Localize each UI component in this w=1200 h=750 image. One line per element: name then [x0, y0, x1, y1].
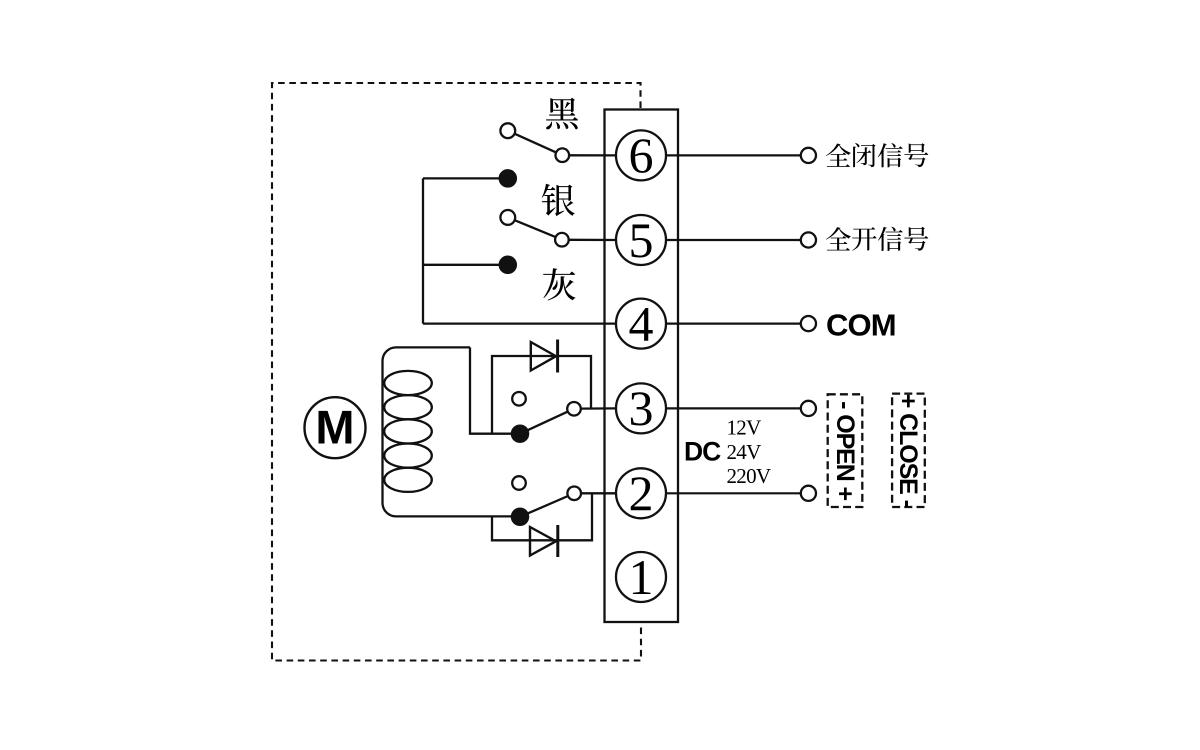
svg-text:+ CLOSE -: + CLOSE - — [894, 394, 922, 508]
wire terminal 4 to external point — [666, 323, 801, 325]
switch S2 lever — [527, 496, 568, 514]
junction dot node (gray common) — [500, 257, 516, 273]
coil turn 4 — [384, 444, 432, 468]
external terminal point for 2 — [801, 486, 816, 501]
svg-text:220V: 220V — [727, 464, 771, 488]
limit switch S5 (silver wire) open contact — [500, 210, 515, 225]
wire S3 contact to terminal 3 — [581, 407, 616, 410]
coil turn 5 — [384, 468, 432, 492]
svg-text:5: 5 — [629, 212, 654, 268]
diode D2 — [530, 527, 556, 556]
coil turn 3 — [384, 419, 432, 443]
motor M — [305, 397, 366, 458]
junction dot node (black common) — [500, 170, 516, 186]
label: full-open signal (CJK) — [826, 227, 928, 251]
CLOSE polarity dashed box — [892, 394, 925, 508]
motor winding coil outline — [383, 347, 513, 516]
wire bus to terminal 4 — [423, 322, 616, 324]
diode D1 bypass branch wire — [492, 356, 591, 434]
switch S2 pole dot — [512, 509, 528, 525]
svg-text:2: 2 — [629, 465, 654, 521]
switch S3 open contact (top) — [512, 392, 526, 406]
label: gray wire (CJK hui) — [543, 268, 575, 300]
wire coil top to switch S3 pole — [470, 347, 512, 433]
svg-text:1: 1 — [629, 549, 654, 605]
terminal 4 — [616, 295, 666, 351]
wire bus to black dot — [423, 177, 500, 179]
terminal 5 — [616, 212, 666, 268]
diode D1 cathode bar — [556, 340, 559, 373]
label: silver wire (CJK yin) — [542, 184, 575, 216]
limit switch S6 (black wire) open contact — [500, 123, 515, 138]
svg-text:24V: 24V — [727, 440, 762, 464]
OPEN polarity dashed box — [828, 394, 863, 507]
wire S2 contact to terminal 2 — [581, 492, 616, 494]
terminal strip — [605, 110, 679, 623]
svg-text:12V: 12V — [727, 415, 762, 439]
switch S6 contact to terminal 6 — [556, 148, 570, 162]
svg-text:COM: COM — [826, 308, 896, 343]
diode D2 cathode bar — [556, 525, 559, 557]
wire terminal 3 to external point — [666, 407, 801, 409]
terminal 3 — [616, 380, 666, 436]
wire contact S5 to terminal 5 — [569, 239, 616, 241]
switch S3 contact — [567, 402, 581, 416]
wire contact S6 to terminal 6 — [569, 154, 616, 156]
terminal 6 — [616, 127, 666, 183]
coil turn 1 — [384, 371, 432, 395]
switch S5 lever — [515, 220, 556, 237]
coil turn 2 — [384, 395, 432, 419]
external terminal point for 5 — [801, 232, 816, 247]
external terminal point for 6 — [801, 148, 816, 163]
switch S3 lever — [527, 412, 567, 431]
wire terminal 2 to external point — [666, 492, 801, 494]
switch S2 contact — [567, 487, 581, 501]
wire terminal 6 to external point — [666, 154, 801, 156]
label: full-closed signal (CJK) — [826, 143, 928, 167]
svg-text:4: 4 — [629, 295, 654, 351]
wire terminal 5 to external point — [666, 239, 801, 241]
common bus wire vertical — [422, 178, 424, 323]
external terminal point for 4 — [801, 316, 816, 331]
svg-text:- OPEN +: - OPEN + — [831, 401, 859, 500]
switch S5 contact to terminal 5 — [555, 233, 569, 247]
dashed actuator enclosure border — [272, 83, 641, 661]
external terminal point for 3 — [801, 401, 816, 416]
terminal 2 — [616, 465, 666, 521]
switch S3 pole dot — [512, 426, 528, 442]
switch S6 lever — [515, 134, 557, 153]
terminal 1 — [616, 549, 666, 605]
svg-text:DC: DC — [684, 437, 721, 467]
svg-text:M: M — [315, 401, 354, 454]
switch S2 open contact (top) — [512, 476, 526, 490]
svg-text:3: 3 — [629, 380, 654, 436]
diode D2 bypass branch wire — [492, 493, 592, 540]
label: black wire (CJK hei) — [546, 98, 578, 130]
svg-text:6: 6 — [629, 127, 654, 183]
diode D1 — [531, 342, 556, 371]
wire bus to gray dot — [423, 264, 500, 266]
